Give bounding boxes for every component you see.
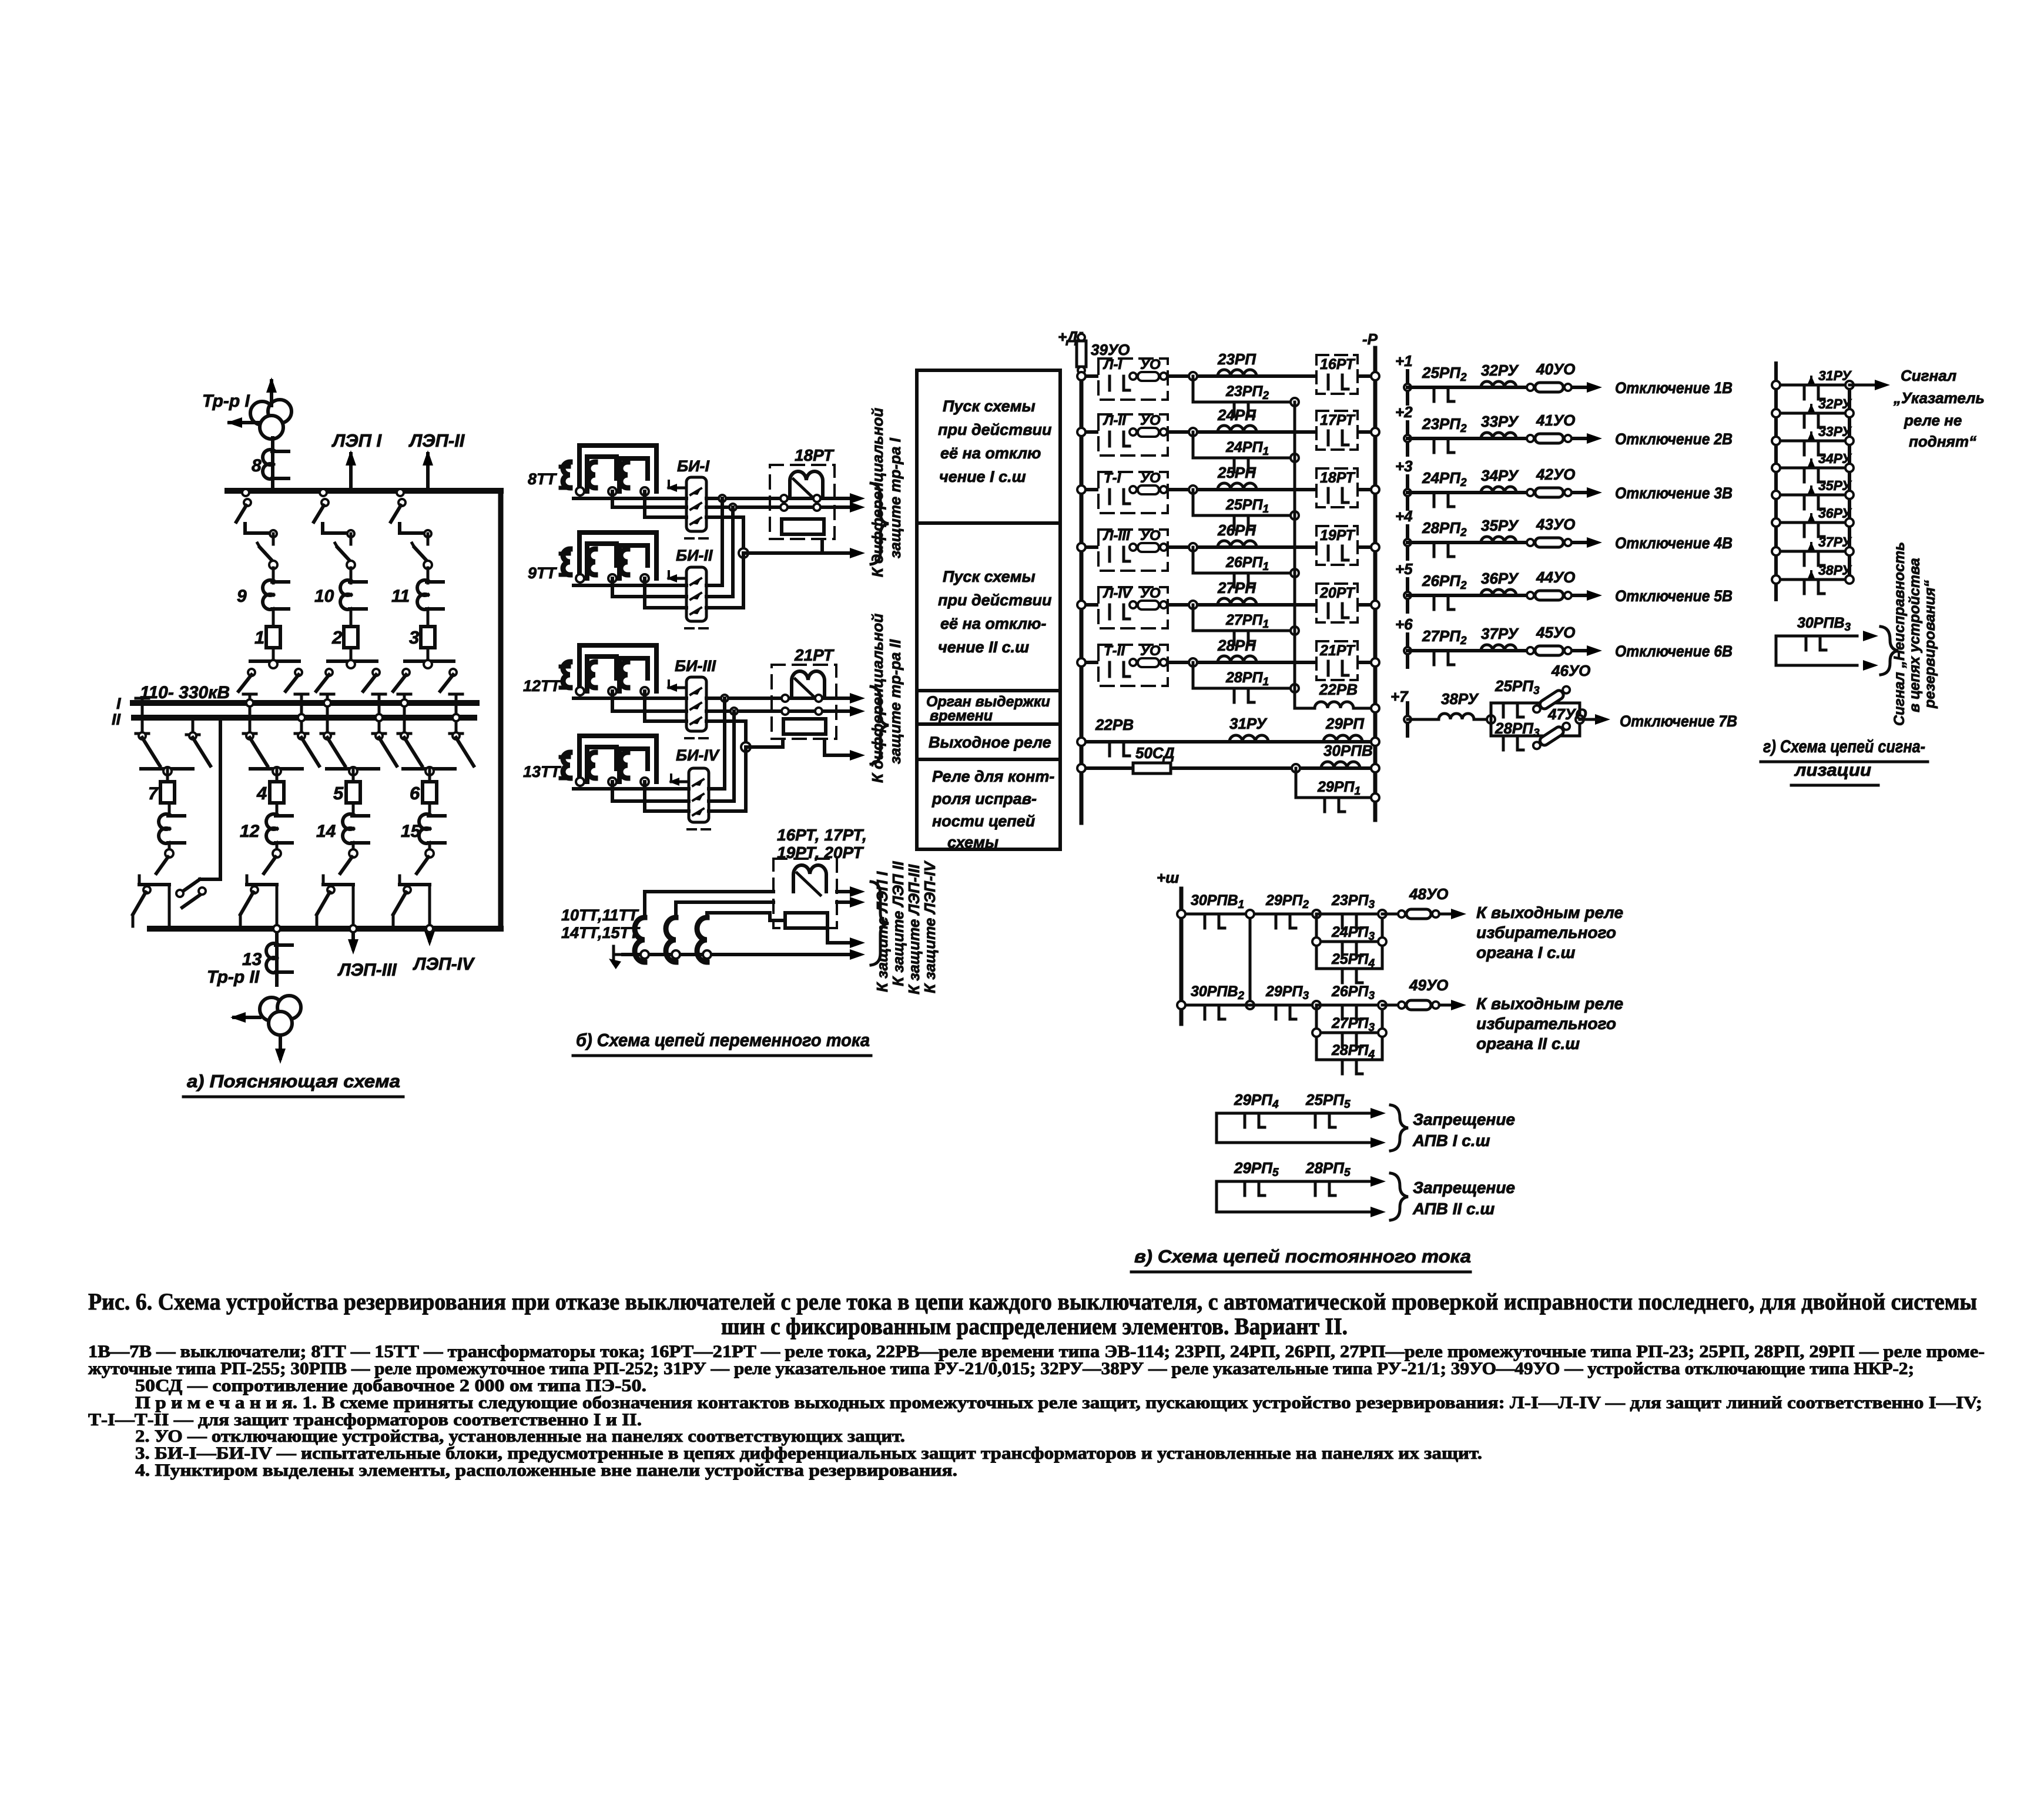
arrow out B <box>850 502 865 513</box>
svg-text:34РУ: 34РУ <box>1481 467 1519 484</box>
svg-text:Выходное реле: Выходное реле <box>929 734 1051 751</box>
disconnector bridge lower col <box>403 767 455 771</box>
svg-text:Рис. 6. Схема устройства резер: Рис. 6. Схема устройства резервирования … <box>88 1288 1977 1315</box>
wire col2 to CT <box>350 568 353 583</box>
bypass collector vertical <box>1294 402 1296 708</box>
contact 29РП3 <box>1275 1005 1278 1019</box>
svg-text:22РВ: 22РВ <box>1095 716 1134 734</box>
bus -Р <box>1373 348 1378 820</box>
svg-text:УО: УО <box>1140 470 1161 486</box>
svg-text:35РУ: 35РУ <box>1481 517 1519 534</box>
bus selection stem <box>300 694 303 734</box>
coil 30РПВ <box>1321 762 1360 768</box>
text box 1 <box>917 370 1060 523</box>
wires 8ТТ to БИ-I <box>574 497 686 500</box>
svg-text:+7: +7 <box>1390 688 1409 705</box>
svg-text:27РП2: 27РП2 <box>1422 627 1467 647</box>
svg-text:+Д: +Д <box>1058 328 1078 346</box>
contact 25РП5 <box>1314 1113 1317 1127</box>
coil 31РУ <box>1229 735 1268 742</box>
breaker 6 <box>423 782 437 803</box>
svg-text:44УО: 44УО <box>1536 568 1575 586</box>
signal contact 37РУ <box>1776 550 1849 553</box>
contact 28РП3 <box>1502 736 1505 750</box>
test block БИ-III <box>686 677 706 731</box>
device 39УО on bus <box>1078 334 1085 341</box>
junction stem on bus I <box>401 699 408 706</box>
wires 12ТТ to БИ-III <box>574 696 686 700</box>
contact Л-III <box>1108 547 1111 561</box>
svg-text:30РПВ: 30РПВ <box>1323 742 1373 759</box>
top bus <box>227 488 501 494</box>
svg-text:18РТ: 18РТ <box>1320 470 1356 486</box>
bus selection stem <box>455 694 458 734</box>
breaker 7 <box>160 782 175 803</box>
svg-text:в цепях устройства: в цепях устройства <box>1906 558 1923 712</box>
svg-text:Отключение 2В: Отключение 2В <box>1615 430 1733 448</box>
wire F <box>706 719 746 723</box>
bypass blades <box>180 879 200 893</box>
svg-text:-Р: -Р <box>1362 330 1378 348</box>
test block БИ-I <box>686 477 706 531</box>
svg-text:схемы: схемы <box>947 833 998 851</box>
blade lower col <box>273 849 281 858</box>
contact 23РП3 <box>1341 914 1344 928</box>
blade switch col3 <box>427 534 430 544</box>
wire CT to breaker col <box>272 609 275 627</box>
coil 38РУ <box>1439 714 1474 719</box>
arrow out 3 <box>827 928 853 943</box>
svg-text:К защите ЛЭП-IV: К защите ЛЭП-IV <box>921 860 939 993</box>
CT hooks bottom group <box>635 917 645 962</box>
svg-text:8: 8 <box>252 456 262 475</box>
wire Тр-р II feeder <box>275 929 279 985</box>
svg-text:БИ-I: БИ-I <box>677 457 710 475</box>
svg-text:К выходным реле: К выходным реле <box>1476 994 1623 1013</box>
svg-text:29РП5: 29РП5 <box>1234 1159 1279 1179</box>
row7 parallel block <box>1474 718 1491 721</box>
branch 22РВ coil <box>1295 682 1375 708</box>
svg-text:28РП3: 28РП3 <box>1495 719 1540 739</box>
svg-text:УО: УО <box>1140 585 1161 601</box>
tick bus +6 <box>1406 634 1409 667</box>
svg-text:24РП2: 24РП2 <box>1422 469 1467 489</box>
svg-text:28РП1: 28РП1 <box>1225 669 1269 688</box>
wire lower to 18РТ rect <box>743 551 822 555</box>
row Л-II wire <box>1081 430 1375 434</box>
resistor 50СД <box>1133 763 1171 773</box>
feeder ЛЭП-III arrow <box>351 929 355 949</box>
transformer Тр-р II <box>260 997 283 1021</box>
svg-text:Пуск схемы: Пуск схемы <box>943 568 1036 585</box>
blade lower col <box>349 849 357 858</box>
svg-text:31РУ: 31РУ <box>1229 715 1268 732</box>
coil 27РП <box>1218 598 1256 605</box>
svg-text:28РП5: 28РП5 <box>1305 1159 1351 1179</box>
breaker 3 <box>421 627 435 648</box>
bus selection stem <box>403 694 406 734</box>
brace дифф II <box>871 686 889 764</box>
svg-text:защите тр-ра I: защите тр-ра I <box>886 437 904 558</box>
signal ladder left rail <box>1774 363 1778 600</box>
svg-text:УО: УО <box>1140 643 1161 659</box>
device УО row Л-II <box>1130 428 1137 436</box>
svg-text:46УО: 46УО <box>1551 662 1590 679</box>
svg-text:37РУ: 37РУ <box>1481 625 1519 642</box>
coil 24РП <box>1218 426 1256 432</box>
CT on coupler <box>168 803 171 816</box>
contact 25РП3 <box>1502 703 1505 717</box>
row Отключение 5В wire <box>1408 594 1587 597</box>
svg-text:+3: +3 <box>1395 457 1413 475</box>
svg-text:50СД: 50СД <box>1135 744 1175 762</box>
svg-text:реле не: реле не <box>1904 411 1962 429</box>
device 46УО slanted <box>1532 685 1572 715</box>
svg-text:АПВ II с.ш: АПВ II с.ш <box>1412 1200 1495 1218</box>
disconnector bridge upper col <box>328 659 377 663</box>
row Отключение 6В wire <box>1408 649 1587 652</box>
junction stem on bus II <box>453 714 460 721</box>
vertical x1265 to node <box>743 553 744 608</box>
svg-text:30РПВ3: 30РПВ3 <box>1797 615 1851 634</box>
wire D out <box>706 696 853 700</box>
svg-text:+1: +1 <box>1395 352 1413 370</box>
wire col1 to CT <box>272 568 275 583</box>
junction dots bottom group <box>641 950 649 959</box>
svg-text:а) Поясняющая схема: а) Поясняющая схема <box>187 1071 400 1091</box>
brace дифф I <box>871 483 889 564</box>
contact 25РП4 <box>1341 969 1344 983</box>
svg-text:Отключение 4В: Отключение 4В <box>1615 534 1733 552</box>
signal contact 33РУ <box>1776 440 1849 443</box>
junction 2205,1307 <box>1292 764 1300 772</box>
device УО row Л-I <box>1130 373 1137 380</box>
signal contact 38РУ <box>1776 578 1849 581</box>
wire to 21РТ rect <box>746 745 783 749</box>
dashed box Т-II/УО <box>1098 645 1168 686</box>
wire to bottom bus <box>428 885 431 929</box>
svg-text:25РП: 25РП <box>1217 464 1256 481</box>
svg-text:5: 5 <box>333 783 344 803</box>
wires БИ-IV out <box>709 787 725 791</box>
svg-text:Отключение 5В: Отключение 5В <box>1615 587 1733 605</box>
row2 +ш wire <box>1181 1004 1316 1007</box>
svg-text:Тр-р I: Тр-р I <box>202 391 250 411</box>
device УО row Л-III <box>1130 544 1137 551</box>
coupler stem left <box>141 703 144 734</box>
svg-text:38РУ: 38РУ <box>1441 690 1479 708</box>
contact 26РП2 row Отключение 5В <box>1433 595 1436 610</box>
svg-text:Л-IV: Л-IV <box>1103 585 1132 601</box>
wires bottom group to РТ <box>645 892 773 917</box>
CT 10 on col <box>340 580 351 595</box>
vertical x1249 <box>732 711 736 801</box>
svg-text:29РП: 29РП <box>1325 715 1365 732</box>
arrow Отключение 6В <box>1587 645 1602 656</box>
contact 27РП3 <box>1341 1033 1344 1047</box>
signal contact 36РУ <box>1776 521 1849 524</box>
marker arrow БИ-III <box>669 686 686 689</box>
arrow out 2 <box>837 900 853 904</box>
svg-text:28РП: 28РП <box>1217 637 1256 654</box>
svg-text:+2: +2 <box>1395 403 1413 421</box>
vertical x1269 to node <box>744 721 748 747</box>
svg-text:Отключение 1В: Отключение 1В <box>1615 379 1733 397</box>
svg-text:БИ-II: БИ-II <box>676 547 713 564</box>
svg-text:Отключение 3В: Отключение 3В <box>1615 484 1733 502</box>
svg-text:Т-II: Т-II <box>1104 643 1125 659</box>
dashed box 21РТ <box>1316 641 1358 680</box>
indicator relay 33РУ <box>1481 433 1516 438</box>
arrow неисправность 1 <box>1863 631 1878 641</box>
svg-text:41УО: 41УО <box>1536 411 1575 429</box>
svg-text:Запрещение: Запрещение <box>1413 1178 1515 1197</box>
svg-text:27РП1: 27РП1 <box>1225 612 1269 631</box>
device 43УО <box>1527 539 1534 546</box>
contact Т-II <box>1108 662 1111 677</box>
svg-text:20РТ: 20РТ <box>1319 585 1356 601</box>
brace АПВ I <box>1390 1105 1408 1151</box>
row7 wire <box>1408 718 1437 721</box>
svg-text:16РТ: 16РТ <box>1320 356 1356 373</box>
row Отключение 2В wire <box>1408 437 1587 440</box>
CT group 13ТТ <box>561 755 569 759</box>
wire breaker 3 to bridge <box>427 648 430 661</box>
svg-text:47УО: 47УО <box>1547 705 1587 723</box>
svg-text:42УО: 42УО <box>1536 466 1575 483</box>
wire A to 18РТ and out <box>706 497 853 500</box>
CT group 8ТТ <box>561 465 569 469</box>
svg-text:г) Схема цепей сигна-: г) Схема цепей сигна- <box>1763 737 1925 756</box>
bus selection stem <box>249 694 252 734</box>
contact 24РП2 row Отключение 3В <box>1433 493 1436 507</box>
bypass contact 27РП1 <box>1193 605 1295 631</box>
common return wire <box>623 953 853 956</box>
svg-text:37РУ: 37РУ <box>1818 534 1852 550</box>
svg-text:Тр-р II: Тр-р II <box>207 967 260 987</box>
svg-text:31РУ: 31РУ <box>1818 368 1852 383</box>
vertical x1265 upper <box>742 517 745 553</box>
junction row Л-IV <box>1189 601 1197 609</box>
disconnector bridge upper col <box>250 659 299 663</box>
indicator relay 32РУ <box>1481 381 1516 387</box>
row Отключение 3В wire <box>1408 491 1587 494</box>
svg-text:4: 4 <box>256 783 267 803</box>
svg-text:14: 14 <box>316 822 336 841</box>
junction stem on bus II <box>298 714 305 721</box>
svg-text:23РП: 23РП <box>1217 350 1256 368</box>
svg-text:Пуск схемы: Пуск схемы <box>943 397 1036 415</box>
row Отключение 4В wire <box>1408 541 1587 544</box>
text box 4 <box>917 724 1060 759</box>
svg-text:Л-II: Л-II <box>1103 413 1127 428</box>
svg-text:К защите ЛЭП II: К защите ЛЭП II <box>889 861 907 986</box>
CT 8 on feeder <box>263 450 273 465</box>
signal contact 34РУ <box>1776 467 1849 470</box>
arrow out 1 <box>837 890 853 893</box>
tick bus +1 <box>1406 371 1409 404</box>
svg-text:б) Схема цепей переменного: б) Схема цепей переменного тока <box>576 1030 870 1050</box>
brace неисправность <box>1881 627 1898 675</box>
arrow Отключение 4В <box>1587 537 1602 548</box>
wire CT to breaker col <box>350 609 353 627</box>
svg-text:17РТ: 17РТ <box>1320 412 1356 428</box>
contact 28РП5 <box>1314 1181 1317 1195</box>
signal contact 31РУ <box>1776 384 1849 387</box>
node 1265,941 <box>739 548 748 558</box>
link vertical 2127 <box>1249 914 1252 1005</box>
CT group 12ТТ <box>561 665 569 669</box>
device УО row Т-II <box>1130 659 1137 666</box>
device 49УО <box>1382 1004 1402 1007</box>
svg-text:Л-I: Л-I <box>1103 357 1122 373</box>
marker arrow БИ-I <box>669 487 686 490</box>
svg-text:29РП2: 29РП2 <box>1265 892 1309 911</box>
row Л-IV wire <box>1081 603 1375 607</box>
breaker 5 <box>346 782 360 803</box>
vertical x1233 <box>723 698 726 789</box>
svg-text:33РУ: 33РУ <box>1481 413 1519 430</box>
breaker 4 <box>270 782 284 803</box>
bypass 29РП1 <box>1296 768 1375 798</box>
svg-text:110- 330кВ: 110- 330кВ <box>140 683 230 702</box>
svg-text:23РП2: 23РП2 <box>1422 415 1467 435</box>
svg-text:К защите ЛЭП-III: К защите ЛЭП-III <box>905 864 923 994</box>
АПВ II loop <box>1217 1181 1375 1212</box>
junction row Л-I <box>1189 372 1197 380</box>
svg-text:шин с фиксированным распределе: шин с фиксированным распределением элеме… <box>721 1313 1348 1339</box>
contact 29РП2 <box>1275 914 1278 928</box>
blade switch col2 <box>350 534 353 544</box>
arrow Отключение 2В <box>1587 433 1602 444</box>
svg-text:7: 7 <box>148 784 159 803</box>
svg-text:8ТТ: 8ТТ <box>528 470 558 488</box>
row 22РВ-31РУ-29РП <box>1081 740 1375 744</box>
disconnector bridge upper col <box>405 659 454 663</box>
svg-text:чение II с.ш: чение II с.ш <box>938 638 1029 656</box>
svg-text:32РУ: 32РУ <box>1481 361 1519 379</box>
contact 28РП4 <box>1341 1060 1344 1074</box>
feeder ЛЭП-IV arrow <box>428 929 431 940</box>
contact Л-IV <box>1108 605 1111 619</box>
wire breaker 1 to bridge <box>272 648 275 661</box>
svg-text:АПВ I с.ш: АПВ I с.ш <box>1412 1131 1490 1150</box>
svg-text:10ТТ,11ТТ,: 10ТТ,11ТТ, <box>561 906 642 924</box>
svg-text:её на отклю: её на отклю <box>940 444 1041 462</box>
contact 19РТ <box>1327 546 1330 560</box>
svg-text:25РП1: 25РП1 <box>1225 497 1269 515</box>
contact Т-I <box>1108 490 1111 504</box>
svg-text:24РП3: 24РП3 <box>1331 924 1375 943</box>
coil 25РП <box>1218 483 1256 490</box>
arrow out A <box>850 493 865 504</box>
svg-text:16РТ, 17РТ,: 16РТ, 17РТ, <box>777 826 867 844</box>
svg-text:28РП4: 28РП4 <box>1331 1042 1375 1061</box>
vertical x1247 <box>731 507 735 597</box>
svg-text:27РП: 27РП <box>1217 579 1256 597</box>
junctions on A,B <box>719 495 726 502</box>
svg-text:при действии: при действии <box>938 591 1052 609</box>
contact 16РТ <box>1327 375 1330 389</box>
contact Л-II <box>1108 432 1111 446</box>
svg-text:в) Схема цепей постоянного: в) Схема цепей постоянного тока <box>1134 1246 1471 1267</box>
feeder ЛЭП-II arrow <box>426 454 430 491</box>
dashed box Л-IV/УО <box>1098 587 1168 628</box>
row Л-III wire <box>1081 545 1375 549</box>
arrow Отключение 7В <box>1595 714 1610 725</box>
svg-text:1: 1 <box>254 627 264 648</box>
row Л-I wire <box>1081 374 1375 378</box>
svg-text:Отключение 6В: Отключение 6В <box>1615 642 1733 660</box>
junction row Л-III <box>1189 543 1197 551</box>
svg-text:23РП2: 23РП2 <box>1225 383 1269 402</box>
svg-text:+5: +5 <box>1395 560 1413 578</box>
contact 22РВ <box>1108 742 1111 756</box>
wires 13ТТ to БИ-IV <box>574 787 689 791</box>
bypass contact 26РП1 <box>1193 547 1295 573</box>
right border wire <box>498 491 504 929</box>
blade to bottom bus <box>327 886 334 893</box>
dashed box 17РТ <box>1316 411 1358 450</box>
test block БИ-II <box>686 567 706 621</box>
svg-text:14ТТ,15ТТ: 14ТТ,15ТТ <box>561 924 641 942</box>
row Отключение 1В wire <box>1408 386 1587 389</box>
row Т-I wire <box>1081 488 1375 491</box>
junction row Т-I <box>1189 485 1197 494</box>
wire to bottom bus <box>276 885 279 929</box>
svg-text:4. Пунктиром выделены элементы: 4. Пунктиром выделены элементы, располож… <box>135 1461 957 1480</box>
svg-text:29РП1: 29РП1 <box>1317 779 1361 798</box>
tick bus +7 <box>1406 703 1409 736</box>
svg-text:+ш: +ш <box>1157 869 1179 886</box>
svg-text:ЛЭП I: ЛЭП I <box>331 430 382 451</box>
arrow Отключение 5В <box>1587 590 1602 601</box>
coil 23РП <box>1218 370 1256 376</box>
junction stem on bus I <box>246 699 253 706</box>
wire col3 to CT <box>427 568 430 583</box>
test block БИ-IV <box>689 768 709 822</box>
dashed box 20РТ <box>1316 584 1358 622</box>
contact 18РТ <box>1327 488 1330 503</box>
svg-text:органа I с.ш: органа I с.ш <box>1476 943 1576 962</box>
busbar I 110-330kV <box>133 700 477 706</box>
wire CT to breaker col <box>427 609 430 627</box>
svg-text:+4: +4 <box>1395 507 1413 525</box>
ground symbol <box>614 953 623 956</box>
svg-text:13ТТ: 13ТТ <box>523 763 562 781</box>
parallel block II <box>1312 1001 1321 1009</box>
marker arrow БИ-IV <box>671 781 689 783</box>
row1 +ш wire <box>1181 913 1316 916</box>
svg-text:УО: УО <box>1140 357 1161 373</box>
bypass contact 23РП2 <box>1193 376 1295 402</box>
text box 5 <box>917 759 1060 849</box>
svg-text:Отключение 7В: Отключение 7В <box>1620 712 1737 730</box>
svg-text:21РТ: 21РТ <box>794 646 835 664</box>
device 48УО <box>1382 913 1402 916</box>
dashed box 19РТ <box>1316 526 1358 565</box>
svg-text:К дифференциальной: К дифференциальной <box>869 614 886 783</box>
svg-text:24РП1: 24РП1 <box>1225 439 1269 458</box>
junction stem on bus II <box>376 714 383 721</box>
arrow Отключение 3В <box>1587 487 1602 498</box>
svg-text:К дифференциальной: К дифференциальной <box>869 408 886 577</box>
brace защитам ЛЭП <box>871 882 889 965</box>
disconnector under top bus col2 <box>320 489 327 496</box>
indicator relay 36РУ <box>1481 590 1516 595</box>
disconnector bridge lower col <box>141 767 193 771</box>
tick bus +4 <box>1406 526 1409 559</box>
